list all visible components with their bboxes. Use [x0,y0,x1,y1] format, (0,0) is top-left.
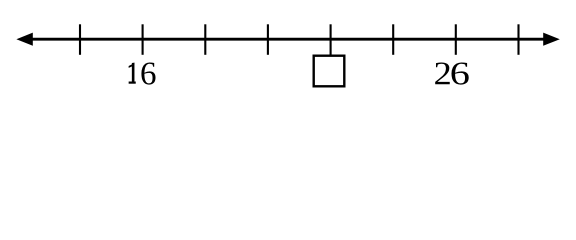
tick 8 [517,24,519,55]
label 26 under tick 7 : digit 2 (Liberation Serif outline) [435,62,450,84]
label 16 : digit 6 (Liberation Serif outline) [141,62,155,84]
tick 1 [79,24,81,55]
label 26 : digit 6 (Liberation Serif outline) [451,62,468,84]
tick 6 [392,24,394,55]
tick 4 [267,24,269,55]
label 16 under tick 2 : digit 1 (custom narrow serif shape) [129,63,136,84]
number line diagram [0,0,576,108]
right arrowhead [543,33,560,46]
answer box below tick 5 [314,56,345,87]
wire: main horizontal number line [28,38,548,41]
tick 7 (value 26) [455,24,457,55]
tick 2 (value 16) [142,24,144,55]
tick 3 [204,24,206,55]
tick 5 (unknown value, box below) [330,24,332,55]
left arrowhead [16,33,32,46]
